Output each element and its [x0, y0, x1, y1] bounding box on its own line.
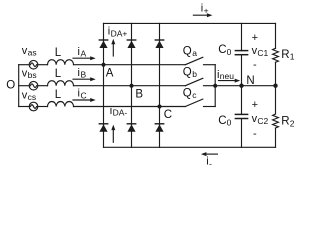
wire left source bus: [18, 65, 20, 107]
svg-text:as: as: [28, 48, 37, 58]
label R1: [281, 49, 295, 62]
capacitor C0 bottom: [235, 86, 247, 148]
svg-text:B: B: [81, 70, 87, 80]
current arrow iDA+: [111, 39, 115, 56]
label i+: [201, 3, 209, 16]
wire bridge leg 2: [131, 23, 133, 147]
label iDA-: [110, 105, 128, 118]
current arrow iC: [73, 98, 96, 102]
svg-text:A: A: [106, 67, 114, 79]
wire bridge leg 3: [159, 23, 161, 147]
svg-text:b: b: [192, 69, 197, 79]
capacitor C0 top: [235, 23, 247, 85]
label C0 top: [218, 44, 231, 57]
label vC1 minus: [253, 59, 257, 71]
source vbs: [29, 81, 38, 90]
svg-text:DA-: DA-: [113, 108, 128, 118]
label iB: [78, 67, 87, 80]
svg-text:C: C: [81, 90, 87, 100]
svg-text:L: L: [55, 47, 62, 59]
svg-text:Q: Q: [183, 87, 192, 99]
node R midpoint: [273, 84, 277, 88]
label C: [164, 109, 172, 121]
svg-text:-: -: [253, 128, 257, 140]
svg-text:neu: neu: [220, 71, 234, 81]
wire switch bus: [214, 65, 216, 107]
svg-text:DA+: DA+: [111, 28, 128, 38]
svg-text:C2: C2: [257, 116, 268, 126]
svg-text:+: +: [204, 5, 209, 15]
wire vcs to inductor: [38, 106, 48, 108]
inductor L phase c: [47, 101, 73, 106]
svg-text:R: R: [281, 116, 289, 128]
label vas: [22, 45, 37, 58]
diode DC+: [155, 40, 163, 48]
label iA: [78, 46, 87, 59]
wire bottom rail: [104, 146, 276, 148]
label vC2 minus: [253, 128, 257, 140]
svg-text:C: C: [218, 44, 226, 56]
wire top rail: [104, 22, 276, 24]
svg-text:-: -: [209, 158, 212, 168]
diode DB+: [127, 40, 135, 48]
label L phase a: [55, 47, 62, 59]
label iDA+: [108, 26, 128, 39]
label vC1 plus: [252, 32, 258, 44]
current arrow iDA-: [111, 125, 115, 143]
svg-text:Q: Q: [183, 46, 192, 58]
current arrow i+: [193, 13, 212, 17]
diode DC-: [155, 124, 163, 132]
wire stub bus to Vcs: [19, 106, 30, 108]
label R2: [281, 116, 295, 129]
wire neutral rail: [215, 85, 275, 87]
svg-text:B: B: [135, 88, 143, 100]
wire bridge leg 1: [103, 23, 105, 147]
svg-text:L: L: [55, 68, 62, 80]
label L phase b: [55, 68, 62, 80]
source vas: [29, 60, 38, 69]
wire vas to inductor: [38, 64, 48, 66]
svg-text:bs: bs: [28, 70, 37, 80]
wire stub bus to Vas: [19, 64, 30, 66]
wire line A: [74, 64, 186, 66]
wire line C: [74, 106, 186, 108]
label L phase c: [55, 89, 62, 101]
label vC1: [252, 45, 269, 58]
node A: [102, 63, 106, 67]
label B: [135, 88, 143, 100]
inductor L phase b: [47, 81, 73, 86]
label ineu: [217, 69, 234, 81]
label i-: [206, 156, 212, 169]
node O label: [6, 80, 15, 92]
node N: [239, 84, 243, 88]
svg-text:+: +: [252, 99, 258, 111]
svg-text:C: C: [218, 115, 226, 127]
svg-text:A: A: [81, 49, 87, 59]
svg-text:1: 1: [290, 52, 295, 62]
svg-text:O: O: [6, 80, 15, 92]
svg-text:R: R: [281, 49, 289, 61]
current arrow iA: [73, 56, 96, 60]
label vbs: [22, 68, 37, 81]
label A: [106, 67, 114, 79]
resistor R2: [273, 86, 279, 148]
svg-text:C1: C1: [257, 48, 268, 58]
svg-text:cs: cs: [28, 92, 36, 102]
inductor L phase a: [47, 60, 73, 65]
wire line B: [74, 85, 186, 87]
label iC: [78, 88, 87, 101]
current arrow iB: [73, 77, 96, 81]
svg-text:0: 0: [227, 47, 232, 57]
switch Qb: [185, 78, 215, 85]
node C: [158, 105, 162, 109]
label Qb: [183, 67, 198, 80]
svg-text:L: L: [55, 89, 62, 101]
diode DB-: [127, 124, 135, 132]
switch Qa: [185, 57, 215, 64]
node B: [130, 84, 134, 88]
wire stub bus to Vbs: [19, 85, 30, 87]
label Qc: [183, 87, 198, 100]
label vcs: [22, 89, 36, 102]
svg-text:c: c: [192, 90, 197, 100]
svg-text:Q: Q: [183, 67, 192, 79]
label Qa: [183, 46, 198, 59]
diode DA+: [99, 40, 107, 48]
svg-text:N: N: [246, 75, 254, 87]
node switch bus junction: [213, 84, 217, 88]
svg-text:a: a: [192, 48, 197, 58]
switch Qc: [185, 99, 215, 106]
svg-text:+: +: [252, 32, 258, 44]
resistor R1: [273, 23, 279, 85]
current arrow i-: [201, 152, 218, 156]
label vC2: [252, 113, 269, 126]
label vC2 plus: [252, 99, 258, 111]
current arrow ineu: [219, 79, 241, 83]
label N: [246, 75, 254, 87]
svg-text:0: 0: [227, 118, 232, 128]
source vcs: [29, 102, 38, 111]
diode DA-: [99, 124, 107, 132]
svg-text:C: C: [164, 109, 172, 121]
wire vbs to inductor: [38, 85, 48, 87]
svg-text:2: 2: [290, 118, 295, 128]
svg-text:-: -: [253, 59, 257, 71]
label C0 bottom: [218, 115, 231, 128]
